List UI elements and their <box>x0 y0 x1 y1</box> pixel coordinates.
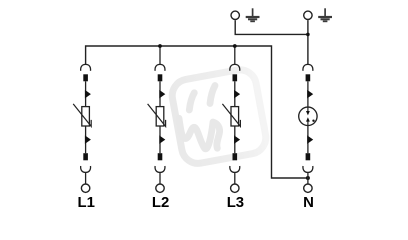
plug-in contact (top) of branch L1 <box>81 64 91 70</box>
wire <box>234 172 236 183</box>
junction bus/L2 <box>158 44 162 48</box>
wire: right PE terminal down to N branch top <box>307 20 309 65</box>
wire <box>85 81 87 106</box>
wire <box>85 172 87 183</box>
disconnect indicator flag (upper) of branch L3 <box>234 90 240 99</box>
wire <box>307 81 309 107</box>
plug-in contact (bottom) of branch L1 <box>81 166 91 172</box>
plug-in contact (bottom) of branch L2 <box>155 166 165 172</box>
terminal PE (left) <box>231 11 239 19</box>
thermal disconnect bar (top) of branch L2 <box>158 74 163 81</box>
varistor F1 (L1) <box>73 104 91 127</box>
electrode arrows of F4 <box>306 111 310 115</box>
wire <box>159 172 161 183</box>
wire <box>307 172 309 183</box>
varistor F3 (L3) <box>222 104 240 127</box>
wire: L2 stem from bus <box>159 46 161 65</box>
plug-in contact (bottom) of branch L3 <box>230 166 240 172</box>
disconnect indicator flag (lower) of branch L3 <box>234 135 240 144</box>
thermal disconnect bar (top) of branch L3 <box>233 74 238 81</box>
plug-in contact (top) of branch L3 <box>230 64 240 70</box>
junction bus/L3 <box>233 44 237 48</box>
plug-in contact (bottom) of branch N <box>303 166 313 172</box>
disconnect indicator flag (upper) of branch N <box>307 90 313 99</box>
wire <box>234 126 236 153</box>
svg-text:L1: L1 <box>78 195 95 211</box>
plug-in contact (top) of branch L2 <box>155 64 165 70</box>
thermal disconnect bar (bottom) of branch N <box>306 153 311 160</box>
wire: phase top bus with drop to N terminal node <box>86 46 308 178</box>
spark gap / gas discharge tube F4 (N) <box>299 107 317 125</box>
terminal L3 <box>231 184 239 192</box>
terminal N <box>304 184 312 192</box>
junction N-node <box>306 176 310 180</box>
wire: PE bus from left PE terminal to N branch <box>235 20 308 34</box>
wire: L3 stem from bus <box>234 46 236 65</box>
thermal disconnect bar (bottom) of branch L1 <box>83 153 88 160</box>
wire <box>159 126 161 153</box>
svg-text:L2: L2 <box>152 195 169 211</box>
thermal disconnect bar (bottom) of branch L3 <box>233 153 238 160</box>
svg-text:N: N <box>303 195 314 211</box>
wire <box>307 125 309 153</box>
varistor F2 (L2) <box>148 104 166 127</box>
terminal L2 <box>156 184 164 192</box>
disconnect indicator flag (upper) of branch L2 <box>159 90 165 99</box>
disconnect indicator flag (lower) of branch L2 <box>159 135 165 144</box>
disconnect indicator flag (upper) of branch L1 <box>85 90 91 99</box>
disconnect indicator flag (lower) of branch L1 <box>85 135 91 144</box>
gas-filled indicator dot of F4 <box>312 120 314 122</box>
disconnect indicator flag (lower) of branch N <box>307 135 313 144</box>
terminal PE (right) <box>304 11 312 19</box>
wire <box>85 126 87 153</box>
wire <box>159 81 161 106</box>
terminal L1 <box>81 184 89 192</box>
ground symbol (right) <box>318 8 332 22</box>
junction PE/N <box>306 33 310 37</box>
ground symbol (left) <box>246 8 260 22</box>
thermal disconnect bar (bottom) of branch L2 <box>158 153 163 160</box>
svg-text:L3: L3 <box>227 195 244 211</box>
thermal disconnect bar (top) of branch N <box>306 74 311 81</box>
thermal disconnect bar (top) of branch L1 <box>83 74 88 81</box>
wire <box>234 81 236 106</box>
plug-in contact (top) of branch N <box>303 64 313 70</box>
